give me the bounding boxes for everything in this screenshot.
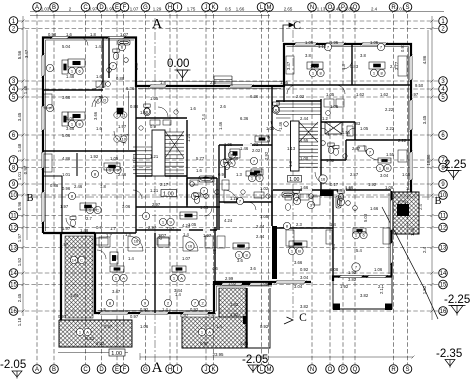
- svg-text:0.57: 0.57: [208, 312, 217, 317]
- svg-text:S: S: [405, 367, 409, 373]
- svg-text:2.87: 2.87: [350, 172, 359, 177]
- svg-text:2.6: 2.6: [220, 104, 226, 109]
- svg-text:A: A: [152, 360, 163, 376]
- svg-text:1.32: 1.32: [326, 158, 335, 163]
- svg-text:G: G: [143, 367, 148, 373]
- svg-text:2.4: 2.4: [371, 7, 378, 12]
- svg-text:3.68: 3.68: [62, 95, 71, 100]
- svg-text:2.4: 2.4: [422, 246, 427, 253]
- svg-text:1.2: 1.2: [322, 116, 328, 121]
- svg-text:4.24: 4.24: [224, 218, 233, 223]
- svg-text:1.92: 1.92: [368, 182, 377, 187]
- svg-text:0.92: 0.92: [300, 267, 309, 272]
- svg-text:1.46: 1.46: [23, 85, 28, 94]
- svg-text:1.84: 1.84: [70, 293, 79, 298]
- svg-text:M: M: [267, 5, 272, 11]
- svg-text:C: C: [83, 367, 88, 373]
- svg-text:1.21: 1.21: [150, 188, 159, 193]
- svg-text:B: B: [52, 367, 56, 373]
- svg-text:3.04: 3.04: [300, 275, 309, 280]
- svg-text:1.92: 1.92: [348, 270, 357, 275]
- svg-text:2.6: 2.6: [210, 80, 216, 85]
- svg-text:1.92: 1.92: [340, 284, 349, 289]
- svg-text:6.22: 6.22: [86, 336, 95, 341]
- svg-text:2.97: 2.97: [148, 225, 157, 230]
- svg-text:18.86: 18.86: [426, 154, 431, 166]
- svg-text:1.05: 1.05: [326, 92, 335, 97]
- svg-text:1.97: 1.97: [106, 7, 115, 12]
- svg-text:A: A: [180, 276, 183, 281]
- svg-text:4.6: 4.6: [212, 249, 217, 255]
- svg-text:D: D: [103, 98, 106, 103]
- svg-text:2.44: 2.44: [256, 234, 265, 239]
- svg-text:0.97: 0.97: [23, 165, 28, 174]
- svg-text:1.82: 1.82: [230, 312, 239, 317]
- svg-text:Q: Q: [353, 367, 358, 373]
- svg-text:5.06: 5.06: [66, 116, 75, 121]
- svg-text:1.8: 1.8: [90, 32, 96, 37]
- svg-text:5.4: 5.4: [356, 248, 362, 253]
- svg-text:3.82: 3.82: [360, 293, 369, 298]
- svg-text:5.08: 5.08: [363, 213, 368, 222]
- svg-text:1.52: 1.52: [17, 257, 22, 266]
- svg-text:0.83: 0.83: [350, 64, 359, 69]
- svg-text:16: 16: [10, 309, 17, 315]
- svg-text:2.65: 2.65: [284, 7, 293, 12]
- svg-text:1.21: 1.21: [132, 153, 137, 162]
- svg-text:3.04: 3.04: [380, 173, 389, 178]
- svg-text:1.05: 1.05: [305, 40, 314, 45]
- svg-text:1.5: 1.5: [100, 307, 106, 312]
- svg-text:1.06: 1.06: [260, 281, 269, 286]
- svg-text:E: E: [115, 367, 119, 373]
- svg-text:23.95: 23.95: [213, 352, 225, 357]
- svg-text:12: 12: [440, 226, 447, 232]
- svg-text:1.6: 1.6: [196, 168, 202, 173]
- svg-text:1.05: 1.05: [224, 142, 233, 147]
- svg-text:G: G: [143, 5, 148, 11]
- svg-text:0.88: 0.88: [130, 104, 139, 109]
- svg-text:1.4: 1.4: [128, 256, 134, 261]
- svg-text:1.75: 1.75: [187, 7, 196, 12]
- svg-text:2.92: 2.92: [264, 151, 269, 160]
- svg-text:1.05: 1.05: [260, 214, 269, 219]
- svg-text:A: A: [152, 17, 163, 32]
- svg-text:1.02: 1.02: [260, 186, 269, 191]
- svg-text:1.07: 1.07: [130, 7, 139, 12]
- svg-text:1.07: 1.07: [182, 256, 191, 261]
- svg-text:1.06: 1.06: [385, 185, 394, 190]
- svg-text:0.97: 0.97: [58, 314, 67, 319]
- svg-text:5.56: 5.56: [17, 50, 22, 59]
- svg-text:1.4: 1.4: [162, 307, 168, 312]
- svg-text:6.4: 6.4: [331, 244, 336, 250]
- svg-text:0.88: 0.88: [116, 76, 125, 81]
- svg-text:1.82: 1.82: [230, 302, 239, 307]
- svg-text:2.02: 2.02: [252, 148, 261, 153]
- svg-text:1.05: 1.05: [280, 80, 289, 85]
- svg-text:3.82: 3.82: [300, 304, 309, 309]
- svg-text:3.45: 3.45: [17, 112, 22, 121]
- svg-text:0.7: 0.7: [96, 225, 102, 230]
- svg-text:J: J: [205, 367, 208, 373]
- svg-text:1.48: 1.48: [95, 44, 104, 49]
- svg-text:N: N: [310, 367, 314, 373]
- svg-text:1.05: 1.05: [110, 156, 119, 161]
- svg-text:2.22: 2.22: [386, 126, 395, 131]
- svg-text:1.05: 1.05: [402, 172, 411, 177]
- svg-text:1.4: 1.4: [406, 186, 412, 191]
- svg-text:-2.25: -2.25: [444, 294, 470, 306]
- svg-text:4.6: 4.6: [212, 266, 218, 271]
- svg-text:0.83: 0.83: [345, 7, 354, 12]
- svg-text:K: K: [211, 367, 215, 373]
- svg-text:1.21: 1.21: [186, 133, 191, 142]
- svg-text:15: 15: [440, 283, 447, 289]
- svg-text:0.92: 0.92: [190, 307, 199, 312]
- svg-text:1.05: 1.05: [330, 104, 339, 109]
- svg-text:2.46: 2.46: [74, 184, 83, 189]
- svg-text:1.66: 1.66: [370, 206, 379, 211]
- svg-text:B: B: [434, 196, 441, 207]
- svg-text:1.95: 1.95: [330, 40, 339, 45]
- svg-text:2.17: 2.17: [160, 182, 169, 187]
- svg-text:11: 11: [10, 214, 17, 220]
- svg-text:0.97: 0.97: [400, 43, 405, 52]
- svg-text:1.07: 1.07: [120, 32, 129, 37]
- svg-text:2.44: 2.44: [300, 116, 309, 121]
- svg-text:0.00: 0.00: [167, 58, 189, 70]
- svg-text:2.3: 2.3: [296, 222, 302, 227]
- svg-text:1.97: 1.97: [60, 242, 69, 247]
- svg-text:2.4: 2.4: [201, 114, 206, 120]
- svg-text:1.7: 1.7: [110, 226, 116, 231]
- svg-text:Q: Q: [353, 5, 358, 11]
- svg-text:1.8: 1.8: [341, 64, 346, 70]
- svg-text:A: A: [208, 330, 211, 335]
- svg-text:0.97: 0.97: [180, 313, 189, 318]
- svg-text:2.25: 2.25: [444, 159, 466, 171]
- svg-text:4.86: 4.86: [62, 156, 71, 161]
- svg-text:B: B: [386, 166, 389, 171]
- svg-text:1.4: 1.4: [183, 232, 189, 237]
- svg-text:1.05: 1.05: [200, 205, 209, 210]
- svg-text:3.6: 3.6: [237, 258, 243, 263]
- svg-text:0.92: 0.92: [140, 307, 149, 312]
- svg-text:1.05: 1.05: [188, 222, 197, 227]
- svg-text:0.97: 0.97: [89, 7, 98, 12]
- svg-text:1.92: 1.92: [90, 154, 99, 159]
- svg-text:1.02: 1.02: [228, 281, 237, 286]
- svg-text:1.29: 1.29: [153, 7, 162, 12]
- svg-text:4.86: 4.86: [422, 55, 427, 64]
- svg-text:3.47: 3.47: [286, 61, 291, 70]
- svg-text:1.66: 1.66: [236, 7, 245, 12]
- svg-text:2.97: 2.97: [152, 202, 161, 207]
- svg-text:16: 16: [134, 239, 139, 244]
- svg-text:2.22: 2.22: [385, 107, 394, 112]
- svg-text:0.9: 0.9: [150, 124, 156, 129]
- svg-text:1.46: 1.46: [240, 146, 249, 151]
- svg-text:P: P: [341, 367, 345, 373]
- svg-text:2.7: 2.7: [86, 216, 92, 221]
- svg-text:3.68: 3.68: [66, 126, 75, 131]
- svg-text:-2.35: -2.35: [436, 348, 462, 360]
- svg-text:1.3: 1.3: [236, 172, 242, 177]
- svg-text:1.05: 1.05: [266, 126, 275, 131]
- svg-text:1.46: 1.46: [230, 156, 239, 161]
- svg-text:2.44: 2.44: [256, 224, 265, 229]
- svg-text:0.9: 0.9: [218, 172, 224, 177]
- svg-text:1.97: 1.97: [17, 233, 22, 242]
- svg-text:5.06: 5.06: [62, 133, 71, 138]
- svg-text:1.8: 1.8: [160, 80, 166, 85]
- svg-text:2.4: 2.4: [390, 64, 396, 69]
- svg-text:3.47: 3.47: [112, 289, 121, 294]
- svg-text:12: 12: [10, 226, 17, 232]
- svg-text:3.66: 3.66: [294, 260, 303, 265]
- svg-text:5.77: 5.77: [196, 156, 205, 161]
- svg-text:1.97: 1.97: [62, 226, 71, 231]
- svg-text:3.47: 3.47: [24, 49, 29, 58]
- svg-text:-2.05: -2.05: [242, 354, 268, 366]
- svg-text:1.13: 1.13: [317, 7, 326, 12]
- svg-text:2.4: 2.4: [418, 204, 423, 210]
- svg-text:1.3: 1.3: [288, 161, 293, 167]
- svg-text:6.36: 6.36: [250, 94, 259, 99]
- svg-text:11: 11: [440, 214, 447, 220]
- svg-text:0.5: 0.5: [225, 7, 232, 12]
- svg-text:14: 14: [10, 271, 17, 277]
- svg-text:1.06: 1.06: [240, 341, 249, 346]
- svg-text:D: D: [99, 367, 104, 373]
- svg-text:2.22: 2.22: [398, 138, 407, 143]
- svg-text:M: M: [267, 367, 272, 373]
- svg-text:0.9: 0.9: [266, 136, 271, 142]
- svg-text:1.48: 1.48: [66, 74, 75, 79]
- svg-text:A: A: [230, 161, 233, 166]
- svg-text:B: B: [26, 193, 33, 204]
- svg-text:3.8: 3.8: [305, 53, 311, 58]
- svg-text:0.45: 0.45: [332, 7, 341, 12]
- svg-text:6.08: 6.08: [330, 267, 339, 272]
- svg-text:1.13: 1.13: [310, 64, 319, 69]
- svg-text:A: A: [122, 276, 125, 281]
- svg-text:1.06: 1.06: [374, 267, 383, 272]
- svg-text:1.21: 1.21: [150, 154, 159, 159]
- svg-text:1.03: 1.03: [41, 7, 50, 12]
- svg-text:1.55: 1.55: [386, 152, 395, 157]
- svg-text:1.6: 1.6: [190, 106, 196, 111]
- svg-text:1.97: 1.97: [60, 204, 69, 209]
- svg-text:1.05: 1.05: [150, 96, 159, 101]
- svg-text:0.88: 0.88: [50, 183, 59, 188]
- svg-text:6.22: 6.22: [96, 341, 105, 346]
- svg-text:0.96: 0.96: [17, 201, 22, 210]
- svg-text:16: 16: [188, 244, 193, 249]
- svg-text:3.04: 3.04: [294, 284, 303, 289]
- svg-text:1.13: 1.13: [287, 146, 296, 151]
- svg-text:0.97: 0.97: [200, 341, 209, 346]
- svg-text:C: C: [83, 5, 88, 11]
- svg-text:1.01: 1.01: [396, 7, 405, 12]
- svg-text:O: O: [328, 367, 333, 373]
- svg-text:1.66: 1.66: [345, 185, 354, 190]
- svg-text:9.50: 9.50: [415, 83, 424, 88]
- svg-text:3.66: 3.66: [93, 111, 98, 120]
- svg-text:3.6: 3.6: [250, 266, 256, 271]
- svg-text:1.05: 1.05: [370, 40, 379, 45]
- svg-text:A: A: [86, 330, 89, 335]
- svg-text:C: C: [96, 208, 99, 213]
- svg-text:1.62: 1.62: [356, 92, 365, 97]
- svg-text:3.8: 3.8: [360, 53, 366, 58]
- svg-text:14: 14: [440, 271, 447, 277]
- svg-text:F: F: [123, 367, 127, 373]
- svg-text:2.87: 2.87: [352, 146, 361, 151]
- svg-text:1.4: 1.4: [336, 188, 342, 193]
- svg-text:1.48: 1.48: [80, 228, 89, 233]
- svg-text:-2.05: -2.05: [0, 359, 26, 371]
- svg-text:14: 14: [72, 258, 77, 263]
- svg-text:3.45: 3.45: [422, 115, 427, 124]
- svg-text:D: D: [99, 5, 104, 11]
- svg-text:1.18: 1.18: [17, 317, 22, 326]
- svg-text:1.46: 1.46: [278, 121, 283, 130]
- svg-text:5.04: 5.04: [62, 44, 71, 49]
- svg-text:1.15: 1.15: [230, 196, 239, 201]
- svg-text:1.4: 1.4: [216, 324, 222, 329]
- svg-text:16: 16: [440, 309, 447, 315]
- svg-text:10: 10: [10, 193, 17, 199]
- svg-text:2.1: 2.1: [378, 284, 384, 289]
- svg-text:1.00: 1.00: [163, 191, 174, 197]
- svg-text:2.46: 2.46: [118, 172, 127, 177]
- svg-text:15: 15: [10, 283, 17, 289]
- svg-text:1.6: 1.6: [96, 74, 102, 79]
- svg-text:1.97: 1.97: [203, 233, 212, 238]
- svg-text:1.06: 1.06: [140, 324, 149, 329]
- svg-text:1.01: 1.01: [17, 171, 22, 180]
- svg-text:1.8: 1.8: [100, 184, 106, 189]
- svg-text:0.92: 0.92: [260, 324, 269, 329]
- svg-text:1.55: 1.55: [342, 130, 351, 135]
- svg-text:0.97: 0.97: [130, 314, 139, 319]
- svg-text:1.4: 1.4: [125, 232, 131, 237]
- svg-text:1.4: 1.4: [330, 222, 336, 227]
- svg-text:1.48: 1.48: [17, 143, 22, 152]
- svg-text:A: A: [35, 367, 39, 373]
- svg-text:1.55: 1.55: [300, 138, 309, 143]
- svg-text:C: C: [299, 312, 307, 324]
- svg-text:2.45: 2.45: [17, 293, 22, 302]
- svg-text:0.97: 0.97: [104, 324, 113, 329]
- svg-text:1.45: 1.45: [410, 227, 415, 236]
- svg-text:H: H: [168, 367, 172, 373]
- svg-text:1.97: 1.97: [118, 124, 127, 129]
- svg-text:2.97: 2.97: [166, 226, 175, 231]
- svg-text:10: 10: [122, 137, 127, 142]
- svg-text:1.01: 1.01: [62, 172, 71, 177]
- svg-text:1.62: 1.62: [380, 92, 389, 97]
- svg-text:3.47: 3.47: [134, 61, 139, 70]
- svg-text:1.6: 1.6: [96, 126, 102, 131]
- svg-text:0.98: 0.98: [48, 32, 57, 37]
- svg-text:1.05: 1.05: [360, 126, 369, 131]
- svg-text:0.97: 0.97: [410, 92, 419, 97]
- svg-text:R: R: [391, 367, 396, 373]
- svg-text:13: 13: [440, 246, 447, 252]
- svg-text:3.82: 3.82: [348, 277, 357, 282]
- svg-text:0.17: 0.17: [330, 182, 339, 187]
- svg-text:1.00: 1.00: [111, 351, 122, 357]
- svg-text:1.00: 1.00: [289, 177, 299, 183]
- svg-text:1.46: 1.46: [218, 121, 223, 130]
- svg-text:C: C: [80, 258, 83, 263]
- svg-text:1.66: 1.66: [300, 185, 309, 190]
- svg-text:6.36: 6.36: [240, 116, 249, 121]
- svg-text:13: 13: [10, 246, 17, 252]
- svg-text:2.02: 2.02: [296, 94, 305, 99]
- svg-text:0.96: 0.96: [62, 186, 71, 191]
- svg-text:B: B: [298, 249, 301, 254]
- svg-text:1.00: 1.00: [300, 156, 309, 161]
- svg-text:6.36: 6.36: [126, 86, 135, 91]
- svg-text:1.4: 1.4: [175, 292, 181, 297]
- svg-text:1.6: 1.6: [140, 110, 146, 115]
- svg-text:3.06: 3.06: [122, 204, 131, 209]
- svg-text:16: 16: [321, 177, 326, 182]
